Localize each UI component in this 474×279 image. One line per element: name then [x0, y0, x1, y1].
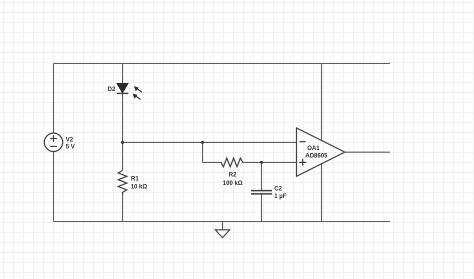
wire left vertical lower [53, 151, 55, 221]
svg-text:5 V: 5 V [66, 145, 75, 151]
resistor R1 [118, 171, 127, 195]
wire bottom rail [54, 221, 391, 223]
svg-text:10 kΩ: 10 kΩ [131, 184, 148, 190]
photodiode D2 [117, 83, 129, 93]
svg-text:OA1: OA1 [307, 146, 320, 152]
wire top rail [54, 63, 391, 65]
svg-text:V2: V2 [66, 137, 74, 143]
wire R1 to bottom rail [122, 195, 124, 222]
wire R2 left lead [203, 161, 222, 163]
wire D2 branch top [122, 64, 124, 84]
resistor R2 [221, 158, 243, 167]
svg-text:AD8605: AD8605 [305, 153, 328, 159]
wire feedback drop [202, 142, 204, 162]
ground [215, 230, 229, 238]
node A junction dot D2/R1 [121, 141, 124, 144]
voltage source V2 [44, 133, 62, 151]
op-amp OA1 [297, 128, 345, 176]
svg-text:1 µF: 1 µF [274, 194, 286, 200]
wire R2 right lead to noninverting input [243, 161, 297, 163]
svg-text:R2: R2 [229, 173, 237, 179]
wire ground stem [222, 222, 224, 230]
light arrow 2 [133, 94, 141, 100]
wire left vertical upper [53, 64, 55, 134]
wire positive supply [321, 64, 323, 141]
wire output [345, 151, 390, 153]
wire negative supply [321, 164, 323, 222]
wire C2 top lead [261, 162, 263, 190]
svg-text:100 kΩ: 100 kΩ [223, 181, 243, 187]
wire inverting input [123, 141, 297, 143]
light arrow 1 [134, 86, 142, 92]
node C junction dot R2/C2 [260, 161, 263, 164]
capacitor C2 [251, 191, 272, 194]
svg-text:R1: R1 [131, 176, 139, 182]
svg-text:C2: C2 [274, 187, 282, 193]
svg-text:D2: D2 [108, 87, 116, 93]
wire D2 to node A [122, 93, 124, 170]
wire C2 bottom lead [261, 194, 263, 222]
node B junction dot feedback tap [201, 141, 204, 144]
